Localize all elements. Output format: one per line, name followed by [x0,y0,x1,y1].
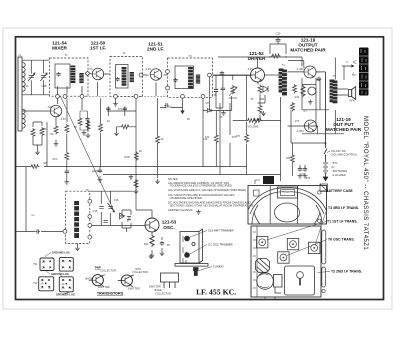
svg-text:C15: C15 [93,209,98,213]
svg-text:AVC: AVC [52,157,57,161]
svg-text:C14: C14 [301,172,306,176]
svg-text:COLLECTOR: COLLECTOR [100,269,116,273]
svg-text:3C: 3C [69,267,72,270]
svg-text:10K: 10K [144,242,149,246]
svg-text:1K VOL: 1K VOL [228,96,238,100]
svg-text:680: 680 [260,97,265,101]
svg-text:.05: .05 [186,117,190,121]
svg-text:1K: 1K [160,137,163,141]
svg-text:SPK: SPK [349,99,354,103]
svg-text:C1B: C1B [41,84,46,88]
svg-text:SECTIONS USING VTVM. NO SIGNAL: SECTIONS USING VTVM. NO SIGNAL AT ROOM T… [170,203,254,207]
svg-text:OTHERWISE SPECIFIED: OTHERWISE SPECIFIED [170,196,202,200]
svg-text:CENTER CHASSIS: CENTER CHASSIS [168,208,193,212]
svg-text:C20: C20 [276,32,281,36]
svg-text:BASE: BASE [86,277,93,281]
svg-text:1B: 1B [42,261,45,264]
svg-text:-1.2V: -1.2V [247,67,253,71]
svg-text:475: 475 [306,176,311,180]
svg-text:121-53: 121-53 [162,220,177,225]
svg-text:EMITTER: EMITTER [128,287,140,291]
svg-text:22K: 22K [42,127,47,131]
svg-text:MATCHED PAIR: MATCHED PAIR [290,48,326,53]
svg-text:1B: 1B [62,260,65,263]
svg-text:2A: 2A [62,267,65,270]
svg-text:4.7: 4.7 [303,109,307,113]
svg-text:CC OSC TRIMMER: CC OSC TRIMMER [208,243,233,247]
svg-text:2A: 2A [62,283,65,286]
svg-text:MIXER: MIXER [52,46,67,51]
svg-text:270: 270 [295,119,300,123]
svg-text:.01: .01 [106,119,110,123]
svg-text:5K: 5K [50,132,53,136]
svg-text:T6 OSC TRANS.: T6 OSC TRANS. [328,238,355,242]
svg-text:TS1: TS1 [33,263,38,266]
svg-text:C1: C1 [31,213,35,217]
svg-text:MODEL "ROYAL 450" -- CHASSIS 7: MODEL "ROYAL 450" -- CHASSIS 7AT45Z1 [362,116,368,250]
svg-text:(VOLUME CONTROL): (VOLUME CONTROL) [331,153,357,157]
svg-text:R12: R12 [295,95,300,99]
svg-text:BASE: BASE [155,288,162,292]
svg-text:-1.05V: -1.05V [296,129,304,133]
svg-text:C10: C10 [203,137,208,141]
svg-text:T2 2ND I.F TRANS.: T2 2ND I.F TRANS. [331,270,362,274]
svg-text:SPEAKER LUG: SPEAKER LUG [56,293,75,297]
svg-text:5E: 5E [48,287,51,290]
svg-text:1B: 1B [62,279,65,282]
svg-text:TOLERANCE UNLESS OTHERWISE SPE: TOLERANCE UNLESS OTHERWISE SPECIFIED [170,184,232,188]
svg-text:BT1: BT1 [333,161,338,165]
svg-text:-1.05V: -1.05V [296,67,304,71]
svg-text:C16: C16 [114,198,119,202]
svg-text:EMITTER: EMITTER [98,285,110,289]
svg-text:TS2: TS2 [33,282,38,285]
svg-text:9V: 9V [331,165,334,169]
svg-text:A: A [346,60,348,64]
svg-text:1500: 1500 [124,155,130,159]
svg-text:C1A: C1A [23,84,28,88]
svg-text:BATTERIES: BATTERIES [333,169,347,173]
svg-text:EMITTER: EMITTER [149,285,161,289]
svg-text:-12V: -12V [47,105,53,109]
svg-text:& HOLDER: & HOLDER [332,173,345,177]
svg-text:ALL VOLTAGES ARE D.C. VALUES (: ALL VOLTAGES ARE D.C. VALUES (STANDARD S… [168,188,246,192]
svg-text:GROUND LUG: GROUND LUG [51,272,69,276]
svg-text:1K: 1K [250,97,253,101]
svg-text:COLLECTOR: COLLECTOR [132,270,148,274]
svg-text:150: 150 [286,156,291,160]
svg-text:-1.5V: -1.5V [60,117,66,121]
svg-text:OSC.: OSC. [163,225,174,230]
svg-text:T3 3RD I.F TRANS.: T3 3RD I.F TRANS. [328,206,359,210]
svg-text:.05: .05 [166,243,170,247]
svg-text:2K: 2K [219,115,222,119]
svg-text:-1.2V: -1.2V [145,67,151,71]
svg-text:TRANSISTORS: TRANSISTORS [97,292,124,296]
svg-text:TUNING: TUNING [213,265,224,269]
svg-text:1ST I.F.: 1ST I.F. [90,46,106,51]
svg-text:1M: 1M [43,161,47,165]
svg-text:10MFD: 10MFD [92,169,101,173]
svg-text:4.7K: 4.7K [211,93,217,97]
svg-text:MATCHED PAIR: MATCHED PAIR [326,127,362,132]
svg-text:.05: .05 [73,125,77,129]
svg-text:GROUND LUG: GROUND LUG [52,251,70,255]
svg-text:3C: 3C [62,287,65,290]
svg-text:C8: C8 [205,101,209,105]
svg-text:+.2V: +.2V [87,67,93,71]
svg-text:5E: 5E [69,287,72,290]
svg-text:4E: 4E [69,279,72,282]
svg-text:3A: 3A [41,287,44,290]
svg-text:4E: 4E [69,260,72,263]
svg-text:VOLUME: VOLUME [248,125,259,129]
svg-text:COLLECTOR: COLLECTOR [155,292,171,296]
svg-text:2ND I.F.: 2ND I.F. [147,47,164,52]
svg-text:I.F. 455 KC.: I.F. 455 KC. [196,288,236,297]
svg-text:BATTERY CASE: BATTERY CASE [326,189,353,193]
svg-text:2A: 2A [41,283,44,286]
svg-text:ON-OFF SW: ON-OFF SW [331,149,346,153]
svg-text:T1 1ST I.F TRANS.: T1 1ST I.F TRANS. [327,220,358,224]
svg-text:270: 270 [118,107,123,111]
svg-text:.02: .02 [138,149,142,153]
svg-text:2A: 2A [42,267,45,270]
svg-text:C16 RMT TRIMMER: C16 RMT TRIMMER [208,229,234,233]
svg-text:47K: 47K [236,134,241,138]
